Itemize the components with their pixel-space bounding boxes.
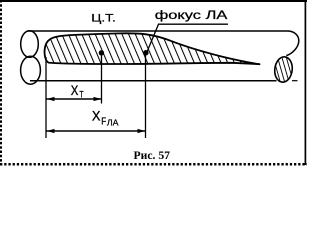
extension line below CG dot: [101, 54, 103, 104]
svg-text:F: F: [101, 117, 106, 128]
dimension line Xfla: [47, 130, 146, 132]
svg-text:X: X: [71, 83, 79, 98]
fuselage band bottom line: [30, 80, 277, 82]
leader line to focus label: [146, 24, 228, 53]
focus dot: [143, 50, 148, 55]
fuselage band bottom line right segment: [292, 80, 298, 82]
frame left border: [0, 0, 2, 163]
extension line below focus dot: [145, 54, 147, 138]
frame top border: [0, 0, 307, 2]
frame right border: [304, 0, 306, 165]
nose ellipse bottom: [21, 56, 41, 84]
svg-text:ЛА: ЛА: [107, 118, 119, 128]
dimension line Xт: [47, 98, 102, 100]
fuselage band top line with rounded right cap: [28, 31, 299, 56]
svg-text:X: X: [92, 109, 101, 124]
extension line at leading edge: [45, 57, 47, 138]
svg-text:Ц.Т.: Ц.Т.: [91, 12, 116, 24]
arrowhead left of Xт dim: [47, 97, 55, 101]
tail ellipse (hatched): [273, 56, 293, 83]
svg-text:Рис. 57: Рис. 57: [134, 150, 171, 162]
svg-text:T: T: [79, 89, 84, 99]
CG dot: [99, 50, 104, 55]
arrowhead right of Xт dim: [94, 97, 102, 101]
arrowhead left of Xfla dim: [47, 129, 55, 133]
frame bottom border: [0, 163, 307, 166]
nose ellipse top: [21, 31, 39, 58]
svg-text:фокус ЛА: фокус ЛА: [155, 8, 228, 22]
arrowhead right of Xfla dim: [138, 129, 146, 133]
airfoil (hatched): [45, 33, 260, 64]
